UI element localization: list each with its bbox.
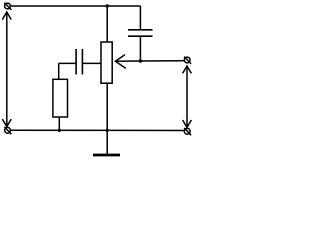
potentiometer R1 body [101, 42, 112, 83]
wire: bottom rail [10, 129, 184, 131]
wire: R2 bottom lead [58, 117, 60, 130]
resistor R2 body [53, 79, 68, 117]
node: ground / R1 bottom junction [106, 129, 109, 132]
port-1 voltage arrow [2, 12, 11, 127]
wire: top rail [10, 5, 140, 7]
ground [93, 130, 120, 155]
wire: R1 top lead [106, 6, 108, 42]
capacitor C1 bottom stub [139, 36, 141, 61]
terminal P1- (bottom-left) [4, 127, 11, 134]
wire: C2 to corner [59, 62, 76, 64]
terminal P2- (bottom-right) [184, 128, 191, 135]
terminal P2+ (top-right) [184, 57, 191, 64]
capacitor C2 plates [76, 49, 82, 75]
capacitor C1 plates [128, 30, 153, 36]
node: top rail / R1 top junction [106, 4, 109, 7]
node: wiper / C1 junction [139, 59, 142, 62]
node: R2 / bottom rail junction [58, 129, 61, 132]
wire: tap wire from R1 left side [82, 62, 101, 64]
capacitor C1 top stub [139, 6, 141, 30]
wire: wiper node to P2+ [140, 60, 184, 62]
terminal P1+ (top-left) [4, 3, 11, 10]
wire: R1 bottom lead [106, 83, 108, 130]
potentiometer R1 wiper arrow [115, 55, 140, 69]
wire: corner down to R2 [58, 63, 60, 79]
port-2 voltage arrow [183, 66, 192, 127]
